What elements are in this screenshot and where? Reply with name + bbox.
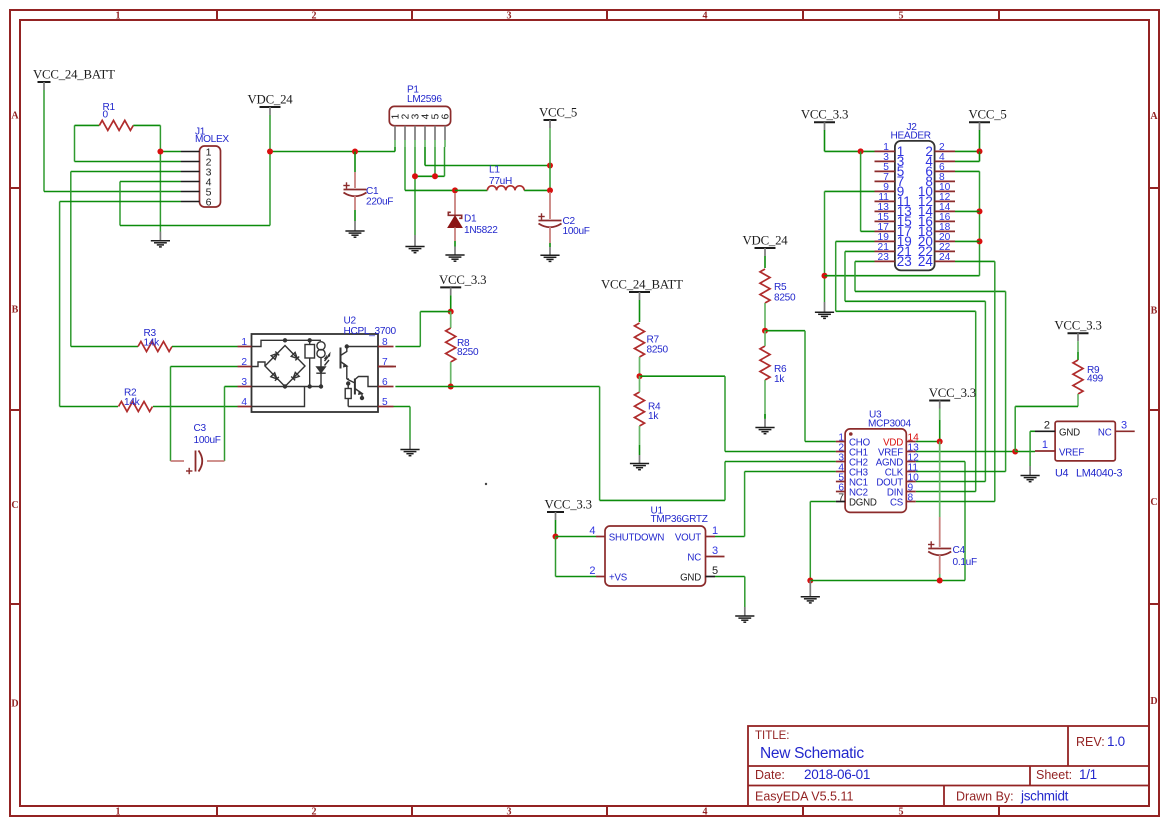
wire P1 pin3 drop to ground (414, 147, 416, 235)
U1 pin 1 VOUT (706, 536, 716, 538)
wire VCC_5 drop (979, 130, 981, 151)
wire D1 bottom (454, 241, 456, 247)
svg-text:+VS: +VS (609, 572, 628, 583)
wire U3 DIN row (916, 491, 976, 493)
svg-text:D: D (1150, 696, 1157, 707)
capacitor C2 (539, 221, 562, 228)
ground P1 pin3 (405, 247, 424, 253)
junction J2 pin20 (977, 238, 983, 244)
wire J2 pin9 row (825, 190, 875, 192)
J1 pin 5 (181, 191, 200, 193)
U3 pin 12 AGND (906, 461, 916, 463)
svg-text:100uF: 100uF (563, 226, 590, 237)
svg-text:8250: 8250 (774, 293, 796, 304)
U2 pin 6 (378, 386, 394, 388)
wire U3 VREF rail (916, 451, 1015, 453)
J2 pin 9 (875, 190, 895, 192)
U1 pin 3 NC (706, 556, 725, 558)
svg-text:VREF: VREF (1059, 447, 1084, 458)
wire J1 pin3 row (71, 171, 181, 173)
svg-text:5: 5 (899, 11, 904, 22)
svg-text:SHUTDOWN: SHUTDOWN (609, 532, 665, 543)
wire VCC_3.3 to R9 (1077, 352, 1079, 360)
wire node to J1 pin1 (160, 151, 181, 153)
U4 pin 3 NC (1115, 430, 1134, 432)
svg-text:2: 2 (589, 565, 595, 577)
U1 pin 4 SHUTDOWN (596, 536, 605, 538)
svg-text:TITLE:: TITLE: (755, 730, 790, 742)
svg-text:100uF: 100uF (194, 435, 221, 446)
wire U3 CS row (916, 501, 995, 503)
svg-text:D1: D1 (464, 214, 477, 225)
junction D1 top (452, 187, 458, 193)
svg-text:23: 23 (878, 252, 890, 263)
svg-text:220uF: 220uF (366, 197, 393, 208)
svg-text:R5: R5 (774, 282, 787, 293)
wire J2 pin24 to U3 CS (955, 260, 995, 262)
P1 pin 1 (394, 126, 396, 140)
svg-text:1N5822: 1N5822 (464, 225, 498, 236)
wire J2 pin20 (955, 240, 980, 242)
wire J2 pin21 row (845, 250, 875, 252)
svg-text:NC: NC (1098, 427, 1112, 438)
svg-text:1k: 1k (774, 374, 785, 385)
ground U2 pin5 (400, 450, 419, 456)
wire J2 pin23 to U3 CLK (854, 261, 856, 291)
svg-text:U4: U4 (1055, 468, 1068, 480)
svg-text:VOUT: VOUT (675, 532, 701, 543)
ground U3 (801, 597, 820, 603)
svg-text:4: 4 (703, 807, 708, 818)
wire U1 VOUT riser to CH3 (715, 536, 745, 538)
svg-text:8250: 8250 (457, 347, 479, 358)
svg-text:EasyEDA V5.5.11: EasyEDA V5.5.11 (755, 790, 853, 804)
svg-text:24: 24 (918, 254, 934, 269)
U2 pin 5 (378, 406, 394, 408)
svg-text:24: 24 (939, 252, 951, 263)
wire VDC_24 to R5 (764, 256, 766, 268)
svg-text:499: 499 (1087, 374, 1104, 385)
svg-text:VCC_24_BATT: VCC_24_BATT (601, 278, 683, 292)
wire C2 bottom (549, 243, 551, 247)
junction J2 pin2 (977, 148, 983, 154)
svg-text:HCPL_3700: HCPL_3700 (344, 326, 397, 337)
J1 pin 2 (181, 161, 200, 163)
J1 pin 1 (181, 151, 200, 153)
U3 pin 6 NC2 (836, 491, 845, 493)
wire J2 pin21 to U3 DOUT (844, 251, 846, 301)
svg-text:1: 1 (116, 11, 121, 22)
wire R4 to ground (639, 445, 641, 455)
wire R3 to U2 pin1 (172, 346, 238, 348)
wire to J2 pin4 (979, 151, 981, 161)
resistor R5 (760, 269, 770, 303)
svg-text:REV:: REV: (1076, 735, 1105, 749)
wire J2 pin19 to U3 DIN (835, 241, 837, 311)
J2 pin 6 (935, 170, 955, 172)
J2 pin 3 (875, 160, 895, 162)
wire R6 to ground (764, 414, 766, 419)
wire U2 pin6 to CH2 loop (395, 386, 599, 388)
svg-text:NC: NC (687, 552, 701, 563)
svg-text:3: 3 (712, 545, 718, 557)
svg-text:Sheet:: Sheet: (1036, 768, 1072, 782)
junction P1 pin3 (412, 173, 418, 179)
svg-text:MCP3004: MCP3004 (868, 419, 911, 430)
resistor R4 (635, 392, 645, 426)
wire divider node to U3 CH1 (640, 375, 726, 377)
svg-text:MOLEX: MOLEX (195, 134, 229, 145)
svg-text:23: 23 (897, 254, 912, 269)
resistor R8 (446, 328, 456, 362)
U2 pin 8 (378, 346, 394, 348)
P1 pin 6 (444, 126, 446, 140)
J2 pin 2 (935, 150, 955, 152)
junction C1 top (352, 149, 358, 155)
wire J2 pin2 (955, 150, 980, 152)
junction VCC_5 node (547, 163, 553, 169)
wire P1 pin5 drop (434, 147, 436, 176)
wire to R3 (71, 346, 138, 348)
svg-text:4: 4 (241, 397, 247, 408)
wire C1 top lead (354, 152, 356, 173)
U3 pin 10 DOUT (906, 481, 916, 483)
svg-text:D: D (11, 699, 18, 710)
wire C3 left to U2 pin2 (170, 367, 172, 462)
svg-text:3: 3 (507, 11, 512, 22)
svg-text:1.0: 1.0 (1107, 734, 1125, 749)
U3 pin 3 CH2 (836, 461, 845, 463)
wire P1 pin1 (394, 147, 396, 152)
regulator P1 LM2596 (389, 106, 450, 125)
svg-text:B: B (12, 305, 19, 316)
diode D1 1N5822 (454, 193, 456, 216)
wire J2 pin23 row (855, 260, 875, 262)
svg-text:New Schematic: New Schematic (760, 745, 864, 762)
J2 pin 12 (935, 200, 955, 202)
svg-text:LM2596: LM2596 (407, 94, 442, 105)
wire VCC_5 drop (549, 140, 551, 190)
svg-text:1: 1 (241, 337, 247, 348)
svg-text:0.1uF: 0.1uF (953, 557, 977, 568)
J1 pin 4 (181, 181, 200, 183)
wire D1 to L1 (455, 189, 487, 191)
svg-text:HEADER: HEADER (891, 131, 931, 142)
junction J2 ground rail (822, 273, 828, 279)
P1 pin 4 (424, 126, 426, 140)
svg-text:2: 2 (241, 357, 247, 368)
U3 pin 2 CH1 (836, 451, 845, 453)
svg-text:VCC_3.3: VCC_3.3 (1054, 319, 1101, 333)
wire node to ground (159, 152, 161, 232)
wire J1 pin3 riser to R3 (70, 172, 72, 347)
wire CH2 loop to U3 (599, 387, 601, 501)
wire to U1 SHUTDOWN (556, 536, 597, 538)
resistor R7 (635, 323, 645, 357)
resistor R6 (760, 346, 770, 380)
wire U2 pin5 to ground (394, 406, 411, 408)
wire P1 pin4 to VCC_5 (424, 147, 426, 166)
J2 pin 13 (875, 210, 895, 212)
svg-text:1/1: 1/1 (1079, 767, 1097, 782)
ground C2 (540, 255, 559, 261)
ground J2 (815, 312, 834, 318)
wire U3 CLK row (916, 471, 1006, 473)
junction C4 bottom (937, 578, 943, 584)
connector J2 HEADER body (895, 141, 935, 271)
svg-text:8: 8 (908, 492, 914, 503)
svg-text:6: 6 (382, 377, 388, 388)
svg-text:1: 1 (1042, 439, 1048, 451)
wire R1 left lead (74, 125, 76, 161)
junction C2 top (547, 187, 553, 193)
wire divider node to U3 CH0 (765, 330, 805, 332)
junction VREF / R9 (1012, 449, 1018, 455)
svg-text:L1: L1 (489, 165, 500, 176)
U3 pin 5 NC1 (836, 481, 845, 483)
U1 pin 5 GND (706, 576, 716, 578)
wire L1 to C2 (524, 189, 550, 191)
junction ground rail left (807, 578, 813, 584)
svg-text:2: 2 (1044, 420, 1050, 432)
wire J1 pin5 row (44, 191, 181, 193)
J2 pin 20 (935, 240, 955, 242)
svg-text:0: 0 (103, 110, 109, 121)
wire P1 pins 3-5-6 tie (415, 175, 445, 177)
junction J2 pin1/pin17 (858, 148, 864, 154)
svg-text:VCC_3.3: VCC_3.3 (439, 273, 486, 287)
wire VCC_3.3 to U1 (555, 520, 557, 537)
ground R6 (755, 428, 774, 434)
J2 pin 10 (935, 190, 955, 192)
resistor R3 (138, 342, 172, 352)
junction J2 pin14 (977, 208, 983, 214)
svg-text:VDC_24: VDC_24 (742, 234, 788, 248)
svg-text:VCC_3.3: VCC_3.3 (929, 386, 976, 400)
svg-text:2: 2 (312, 807, 317, 818)
resistor R1 (99, 120, 133, 130)
vref U4 LM4040-3 body (1055, 421, 1115, 461)
wire J1 pin4 loop to VDC_24 node (119, 182, 121, 226)
ground J1 (151, 241, 170, 247)
J1 pin 3 (181, 171, 200, 173)
svg-text:6: 6 (206, 197, 212, 209)
svg-text:3: 3 (1121, 420, 1127, 432)
svg-text:U2: U2 (344, 316, 357, 327)
J2 pin 19 (875, 240, 895, 242)
J2 pin 14 (935, 210, 955, 212)
U2 internal bridge rectifier / LED / darlington (252, 339, 379, 407)
svg-text:7: 7 (838, 492, 844, 503)
U2 pin7 stub (378, 366, 396, 368)
junction R7/R4 node (637, 373, 643, 379)
wire to R2 (60, 406, 118, 408)
wire VCC_24_BATT to R7 (639, 300, 641, 322)
svg-text:3: 3 (241, 377, 247, 388)
U2 pin 7 (378, 366, 394, 368)
wire J1 pin2 row (75, 161, 182, 163)
wire R1 right lead to node (133, 124, 160, 126)
svg-text:C: C (11, 500, 18, 511)
svg-text:4: 4 (589, 525, 595, 537)
P1 pin 2 (404, 126, 406, 140)
svg-text:C4: C4 (953, 545, 966, 556)
svg-text:C3: C3 (194, 423, 207, 434)
svg-text:B: B (1151, 306, 1158, 317)
wire P1 pin2 to D1 rail (405, 189, 455, 191)
wire U1 GND to ground (715, 576, 745, 578)
J2 pin 17 (875, 230, 895, 232)
adc U3 MCP3004 body (845, 429, 906, 513)
wire U3 VDD (916, 441, 940, 443)
J2 pin 8 (935, 180, 955, 182)
svg-text:14k: 14k (124, 397, 141, 408)
wire VREF to U4 (1015, 451, 1035, 453)
wire riser to J2 pin17 (860, 151, 862, 231)
connector J1 MOLEX (200, 146, 221, 207)
wire analog ground rail (810, 580, 965, 582)
junction R8 top (448, 309, 454, 315)
svg-text:14k: 14k (144, 338, 161, 349)
optocoupler U2 HCPL_3700 body (252, 334, 379, 412)
svg-text:C: C (1150, 497, 1157, 508)
capacitor C1 (344, 190, 367, 197)
capacitor C3 100uF (horizontal polarized) (171, 460, 185, 462)
svg-text:GND: GND (680, 572, 701, 583)
wire C1 bottom lead (354, 210, 356, 221)
junction U3 VDD / C4 (937, 439, 943, 445)
svg-text:Drawn By:: Drawn By: (956, 790, 1014, 804)
junction R8 bottom / U2 pin6 (448, 384, 454, 390)
svg-text:DGND: DGND (849, 497, 877, 508)
svg-text:5: 5 (382, 397, 388, 408)
ground R4 (630, 464, 649, 470)
capacitor C4 (928, 549, 951, 556)
svg-text:8: 8 (382, 337, 388, 348)
wire J1 pin6 row (60, 201, 181, 203)
wire VDC_24 drop (269, 115, 271, 152)
junction R5/R6 node (762, 328, 768, 334)
wire J2 pin9 riser to ground (824, 191, 826, 302)
wire VCC_3.3 to node (450, 295, 452, 311)
svg-text:VCC_5: VCC_5 (969, 108, 1007, 122)
svg-text:3: 3 (507, 807, 512, 818)
svg-text:8250: 8250 (647, 345, 669, 356)
wire R2 to U2 pin4 (153, 406, 238, 408)
sensor U1 TMP36GRTZ body (605, 526, 706, 586)
wire VCC_24_BATT to J1 pin5 (43, 90, 45, 192)
J2 pin 4 (935, 160, 955, 162)
wire C3 right to U2 pin3 (224, 387, 226, 462)
svg-text:VCC_3.3: VCC_3.3 (545, 498, 592, 512)
svg-text:6: 6 (441, 113, 452, 119)
svg-text:GND: GND (1059, 427, 1080, 438)
svg-text:TMP36GRTZ: TMP36GRTZ (651, 514, 708, 525)
ground C1 (345, 231, 364, 237)
U3 pin 1 CHO (836, 441, 845, 443)
U3 pin 8 CS (906, 501, 916, 503)
svg-text:CS: CS (890, 497, 904, 508)
J1 pin 6 (181, 201, 200, 203)
P1 pin 3 (414, 126, 416, 140)
wire J1 pin4 row (120, 181, 181, 183)
J2 pin 18 (935, 230, 955, 232)
svg-text:5: 5 (899, 807, 904, 818)
wire CH3 row (745, 471, 836, 473)
svg-text:A: A (11, 111, 19, 122)
U2 pin 3 (238, 386, 252, 388)
svg-text:77uH: 77uH (489, 176, 512, 187)
wire VCC_3.3 drop (824, 130, 826, 151)
resistor R2 (119, 402, 153, 412)
svg-text:2: 2 (312, 11, 317, 22)
wire P1 pin2 drop (404, 147, 406, 190)
wire ground rail to J2 pin6 (825, 275, 980, 277)
U4 pin 2 GND (1035, 430, 1055, 432)
wire J1 pin6 riser to R2 (59, 202, 61, 407)
U3 pin 9 DIN (906, 491, 916, 493)
U2 pin 1 (238, 346, 252, 348)
wire VDC_24 rail to P1 pin1 (270, 151, 395, 153)
J2 pin 15 (875, 220, 895, 222)
wire U3 DGND drop (810, 501, 836, 503)
wire J2 pin19 row (836, 240, 875, 242)
P1 pin 5 (434, 126, 436, 140)
U1 pin 2 +VS (596, 576, 605, 578)
wire node to U2 pin8 (420, 311, 450, 313)
svg-text:1k: 1k (648, 411, 659, 422)
wire U3 AGND to ground rail (916, 461, 965, 463)
U4 pin 1 VREF (1035, 450, 1055, 452)
J2 pin 23 (875, 260, 895, 262)
U3 pin 7 DGND (836, 501, 845, 503)
U3 pin 14 VDD (906, 441, 916, 443)
ground D1 (445, 255, 464, 261)
J2 pin 1 (875, 150, 895, 152)
U3 pin 11 CLK (906, 471, 916, 473)
stray dot mark (485, 483, 487, 485)
svg-text:2018-06-01: 2018-06-01 (804, 767, 870, 782)
svg-text:C1: C1 (366, 186, 379, 197)
svg-text:VCC_24_BATT: VCC_24_BATT (33, 68, 115, 82)
U3 pin 4 CH3 (836, 471, 845, 473)
junction P1 pin5 (432, 173, 438, 179)
J2 pin 5 (875, 170, 895, 172)
wire U3 DOUT row (916, 481, 986, 483)
svg-text:A: A (1150, 111, 1158, 122)
junction U1 supply (553, 534, 559, 540)
svg-text:jschmidt: jschmidt (1020, 789, 1069, 804)
svg-text:5: 5 (712, 565, 718, 577)
wire VCC_3.3 to J2 pin1 (825, 150, 875, 152)
J2 pin 11 (875, 200, 895, 202)
svg-text:VCC_3.3: VCC_3.3 (801, 108, 848, 122)
wire to U1 +VS (555, 537, 557, 577)
resistor R9 (1073, 360, 1083, 394)
inductor L1 (487, 186, 524, 191)
svg-text:Date:: Date: (755, 768, 785, 782)
svg-text:VCC_5: VCC_5 (539, 106, 577, 120)
svg-text:1: 1 (116, 807, 121, 818)
ground U1 (735, 616, 754, 622)
wire J2 pin14 (955, 210, 980, 212)
U3 pin 13 VREF (906, 451, 916, 453)
J2 pin 22 (935, 250, 955, 252)
wire R9 to VREF node (1015, 405, 1078, 407)
junction VDC_24 node (267, 149, 273, 155)
svg-text:1: 1 (712, 525, 718, 537)
wire VCC_3.3 to VDD (939, 420, 941, 442)
